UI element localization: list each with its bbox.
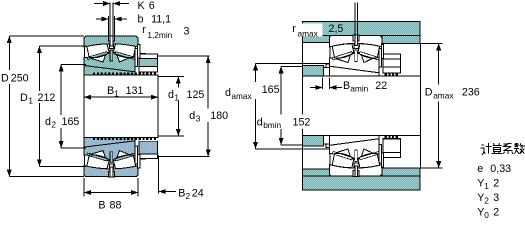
svg-text:r: r (142, 24, 146, 36)
dim D line (8, 36, 10, 177)
dim dbmin line (280, 66, 282, 144)
locknut KM top chamfer (140, 54, 158, 58)
svg-text:2: 2 (484, 196, 489, 206)
svg-text:B: B (343, 80, 350, 92)
cage right (359, 52, 379, 60)
svg-text:K: K (138, 0, 146, 12)
svg-text:250: 250 (11, 73, 29, 85)
lock washer MB (379, 48, 382, 67)
cage left (87, 153, 108, 161)
lube hole cup (354, 163, 358, 167)
left closure line (301, 43, 303, 66)
svg-text:165: 165 (62, 116, 80, 128)
svg-text:2: 2 (493, 178, 499, 190)
dim d2 label (45, 115, 81, 128)
dim D label (1, 70, 30, 84)
dim dbmin ext bottom (281, 144, 302, 146)
dim d3 line (207, 56, 209, 157)
locknut bore side (139, 139, 158, 141)
washer tab black (384, 53, 390, 58)
sleeve nose left (324, 68, 330, 77)
lock washer MB (379, 144, 382, 163)
locknut body (139, 141, 158, 154)
lock washer MB (135, 146, 138, 164)
sleeve taper line (84, 141, 135, 147)
svg-text:d: d (189, 110, 195, 122)
cage center bridge (355, 150, 358, 161)
lube hole cup (109, 44, 113, 48)
lock washer MB (135, 49, 138, 67)
svg-text:131: 131 (126, 85, 144, 97)
dim D ext bottom (9, 176, 84, 178)
dim B ext right (137, 178, 139, 197)
cage right (115, 52, 136, 60)
roller left row (87, 44, 110, 58)
svg-text:amax: amax (231, 91, 252, 101)
lube hole cup (109, 164, 113, 168)
dim d1 label (168, 88, 204, 101)
dim D ext top (9, 35, 84, 37)
inner ring and sleeve (84, 138, 135, 161)
dim d2 ext bottom (61, 147, 86, 149)
svg-text:6: 6 (149, 0, 155, 12)
svg-text:11,1: 11,1 (151, 14, 171, 26)
housing top (302, 22, 420, 44)
cage center bridge (110, 50, 113, 61)
roller left row (87, 155, 110, 169)
locknut bore side (139, 66, 158, 72)
outer ring (84, 36, 138, 47)
housing/shaft right closure (419, 43, 421, 168)
washer tab upright (381, 44, 383, 58)
washer tab black (384, 153, 390, 158)
dim d1 ext bottom (158, 135, 184, 137)
svg-text:amax: amax (433, 91, 454, 101)
dim Damax line (438, 43, 440, 168)
dim damax ext top (256, 62, 330, 64)
washer tab black (140, 154, 146, 159)
washer tab upright (138, 45, 140, 59)
svg-text:1: 1 (28, 96, 33, 106)
roller cavity (330, 149, 382, 168)
svg-text:2: 2 (493, 207, 499, 219)
svg-text:88: 88 (110, 200, 122, 212)
cage right (115, 153, 136, 161)
dim d3 label (189, 109, 226, 123)
svg-text:e: e (477, 163, 483, 175)
svg-text:d: d (45, 116, 51, 128)
inner ring and sleeve (330, 52, 379, 76)
sleeve bore body (84, 75, 158, 138)
roller left row (332, 153, 354, 167)
cage left (332, 151, 352, 159)
dim Bamin arrows (310, 87, 322, 89)
roller cavity (330, 43, 382, 62)
sleeve thread strip (385, 74, 399, 77)
svg-text:amax: amax (298, 29, 319, 39)
locknut body (383, 59, 401, 67)
sleeve thread strip (93, 73, 157, 76)
washer tab upright (138, 155, 140, 169)
dim d1 ext top (158, 76, 184, 78)
shaft (302, 76, 420, 135)
locknut bore side (383, 67, 401, 73)
svg-text:1: 1 (174, 93, 179, 103)
svg-text:D: D (1, 73, 9, 85)
locknut KM top chamfer (140, 154, 158, 158)
dim Damax ext bottom (420, 167, 442, 169)
housing bore line top (302, 34, 420, 36)
housing bottom (302, 168, 420, 190)
lubrication groove W33 (353, 171, 359, 177)
inner ring and sleeve (84, 52, 135, 75)
roller right row (358, 153, 380, 167)
svg-text:2,5: 2,5 (329, 23, 344, 35)
svg-text:2: 2 (51, 120, 56, 130)
svg-text:1,2min: 1,2min (147, 30, 172, 40)
cage right (359, 151, 379, 159)
roller right row (113, 44, 136, 58)
dim b lines (107, 16, 109, 36)
dim B ext left (83, 178, 85, 197)
dim d3 ext top (158, 55, 210, 57)
svg-text:1: 1 (484, 181, 489, 191)
locknut bore side (383, 137, 401, 139)
roller cavity (84, 151, 137, 169)
svg-text:22: 22 (375, 80, 387, 92)
svg-text:d: d (225, 87, 231, 99)
svg-text:3: 3 (184, 26, 190, 38)
dim B2 line (159, 191, 176, 193)
dim D1 line (38, 46, 40, 166)
dim damax ext bottom (256, 148, 330, 150)
svg-text:0: 0 (484, 210, 489, 220)
dim B2 ext (158, 155, 160, 194)
lubrication hole (110, 36, 113, 46)
locknut KM top chamfer (384, 153, 401, 158)
svg-text:d: d (257, 117, 263, 129)
housing bore line bottom (302, 175, 420, 177)
dim dbmin ext top (281, 65, 302, 67)
calculation factors header (CJK strokes) (480, 143, 525, 155)
svg-text:B: B (98, 200, 105, 212)
svg-text:amin: amin (350, 84, 368, 94)
svg-text:3: 3 (493, 192, 499, 204)
dim damax line (255, 63, 257, 149)
dim d3 ext bottom (158, 156, 210, 158)
cage center bridge (355, 50, 358, 61)
dim D1 ext bottom (39, 165, 86, 167)
svg-text:152: 152 (293, 117, 311, 129)
locknut body (139, 58, 158, 66)
svg-text:236: 236 (462, 87, 480, 99)
roller right row (113, 155, 136, 169)
svg-text:165: 165 (262, 84, 280, 96)
dim damax label (225, 82, 285, 99)
sleeve taper line (330, 66, 379, 73)
cage left (87, 52, 108, 60)
dim K lines (109, 3, 111, 46)
svg-text:D: D (20, 92, 28, 104)
sleeve taper line (330, 139, 379, 146)
dim B line (84, 192, 138, 194)
roller right row (358, 44, 380, 58)
dim Damax label (424, 85, 480, 102)
svg-text:212: 212 (38, 92, 56, 104)
svg-text:B: B (107, 85, 114, 97)
dim d2 line (60, 65, 62, 148)
svg-text:D: D (425, 87, 433, 99)
outer ring (330, 35, 382, 46)
sleeve thread strip (93, 138, 157, 141)
svg-text:180: 180 (210, 110, 228, 122)
svg-text:d: d (168, 89, 174, 101)
sleeve taper line (84, 66, 135, 72)
svg-text:B: B (178, 188, 185, 200)
locknut KM top chamfer (384, 54, 401, 59)
washer tab black (140, 53, 146, 58)
svg-text:24: 24 (192, 188, 204, 200)
lubrication groove W33 (108, 171, 114, 176)
dim r_amax label (292, 24, 323, 37)
lubrication hole (355, 166, 358, 176)
dim Bamin ext lines (321, 78, 323, 90)
dim dbmin label (257, 115, 311, 130)
locknut body (383, 139, 401, 153)
abutment collar top (302, 65, 323, 76)
dim B1 line (84, 96, 158, 98)
lubrication groove W33 (353, 35, 359, 41)
sleeve thread strip (385, 135, 399, 138)
dim D1 ext top (39, 45, 86, 47)
svg-text:3: 3 (196, 114, 201, 124)
outer ring (84, 166, 138, 177)
lube hole lines right (354, 3, 356, 36)
inner ring and sleeve (330, 135, 379, 159)
dim Damax ext top (420, 42, 442, 44)
roller cavity (84, 44, 137, 62)
lubrication hole (110, 167, 113, 177)
lubrication groove W33 (108, 36, 114, 41)
abutment collar bottom (302, 135, 323, 146)
washer tab upright (381, 153, 383, 167)
dim d2 ext top (61, 64, 86, 66)
svg-text:125: 125 (187, 89, 205, 101)
svg-text:0,33: 0,33 (490, 163, 511, 175)
roller left row (332, 44, 354, 58)
cage left (332, 52, 352, 60)
dim d1 line (177, 77, 179, 137)
outer ring (330, 165, 382, 176)
svg-text:2: 2 (186, 191, 191, 201)
svg-text:bmin: bmin (263, 120, 281, 130)
svg-text:1: 1 (114, 89, 119, 99)
lube hole cup (354, 44, 358, 48)
lubrication hole (355, 35, 358, 45)
dim D1 label (20, 91, 57, 103)
cage center bridge (110, 152, 113, 163)
svg-text:r: r (292, 23, 296, 35)
